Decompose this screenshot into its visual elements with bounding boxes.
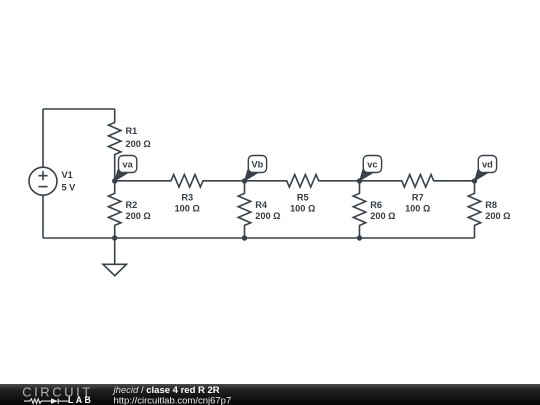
svg-text:5 V: 5 V bbox=[62, 182, 77, 192]
svg-text:R7: R7 bbox=[412, 193, 424, 203]
wire vc to R7 + resistor R7 + wire R7 to vd bbox=[360, 175, 475, 188]
wire va to R3 + resistor R3 + wire R3 to Vb bbox=[115, 175, 245, 188]
resistor R2 vertical bbox=[108, 181, 121, 238]
svg-text:200 Ω: 200 Ω bbox=[126, 211, 151, 221]
flag box vc bbox=[363, 156, 381, 173]
resistor R1 vertical bbox=[108, 109, 121, 181]
svg-text:200 Ω: 200 Ω bbox=[370, 211, 395, 221]
svg-text:100 Ω: 100 Ω bbox=[175, 204, 200, 214]
junction dot R4 bottom bbox=[242, 235, 247, 240]
wire bottom ground bus bbox=[43, 237, 475, 239]
node dot vc bbox=[357, 178, 362, 183]
svg-text:vc: vc bbox=[367, 160, 377, 170]
junction dot ground/R2 bbox=[112, 235, 117, 240]
ground triangle bbox=[103, 264, 127, 275]
flag box Vb bbox=[248, 156, 266, 173]
svg-text:R2: R2 bbox=[126, 200, 138, 210]
svg-text:R4: R4 bbox=[255, 200, 268, 210]
svg-text:LAB: LAB bbox=[68, 395, 93, 405]
logo diode triangle bbox=[51, 398, 58, 404]
svg-text:V1: V1 bbox=[62, 170, 73, 180]
svg-text:R3: R3 bbox=[181, 193, 193, 203]
svg-text:va: va bbox=[122, 160, 133, 170]
resistor R8 vertical bbox=[468, 181, 481, 238]
resistor R6 vertical bbox=[353, 181, 366, 238]
svg-text:R8: R8 bbox=[485, 200, 497, 210]
node dot vd bbox=[472, 178, 477, 183]
svg-text:R1: R1 bbox=[126, 126, 138, 136]
svg-text:200 Ω: 200 Ω bbox=[485, 211, 510, 221]
svg-text:Vb: Vb bbox=[252, 160, 264, 170]
V1 minus sign bbox=[38, 186, 47, 188]
wire top bus from V1 to R1 bbox=[43, 108, 115, 110]
wire V1 top lead bbox=[42, 109, 44, 167]
wire Vb to R5 + resistor R5 + wire R5 to vc bbox=[245, 175, 360, 188]
svg-text:100 Ω: 100 Ω bbox=[405, 204, 430, 214]
junction dot R6 bottom bbox=[357, 235, 362, 240]
wire V1 bottom lead bbox=[42, 195, 44, 238]
voltage source V1 circle bbox=[29, 167, 57, 195]
svg-text:100 Ω: 100 Ω bbox=[290, 204, 315, 214]
svg-text:200 Ω: 200 Ω bbox=[255, 211, 280, 221]
flag box vd bbox=[478, 156, 496, 173]
svg-text:R5: R5 bbox=[297, 193, 309, 203]
svg-text:vd: vd bbox=[482, 160, 493, 170]
node dot va bbox=[112, 178, 117, 183]
flag wedge vd bbox=[474, 169, 488, 181]
logo resistor squiggle and diode bbox=[24, 399, 69, 404]
resistor R4 vertical bbox=[238, 181, 251, 238]
V1 plus sign bbox=[38, 171, 47, 180]
flag wedge vc bbox=[359, 169, 373, 181]
node dot Vb bbox=[242, 178, 247, 183]
flag wedge va bbox=[114, 169, 128, 181]
ground stem bbox=[114, 238, 116, 264]
flag wedge Vb bbox=[244, 169, 258, 181]
svg-text:http://circuitlab.com/cnj67p7: http://circuitlab.com/cnj67p7 bbox=[114, 395, 232, 405]
flag box va bbox=[119, 156, 137, 173]
svg-text:200 Ω: 200 Ω bbox=[126, 139, 151, 149]
svg-text:R6: R6 bbox=[370, 200, 382, 210]
